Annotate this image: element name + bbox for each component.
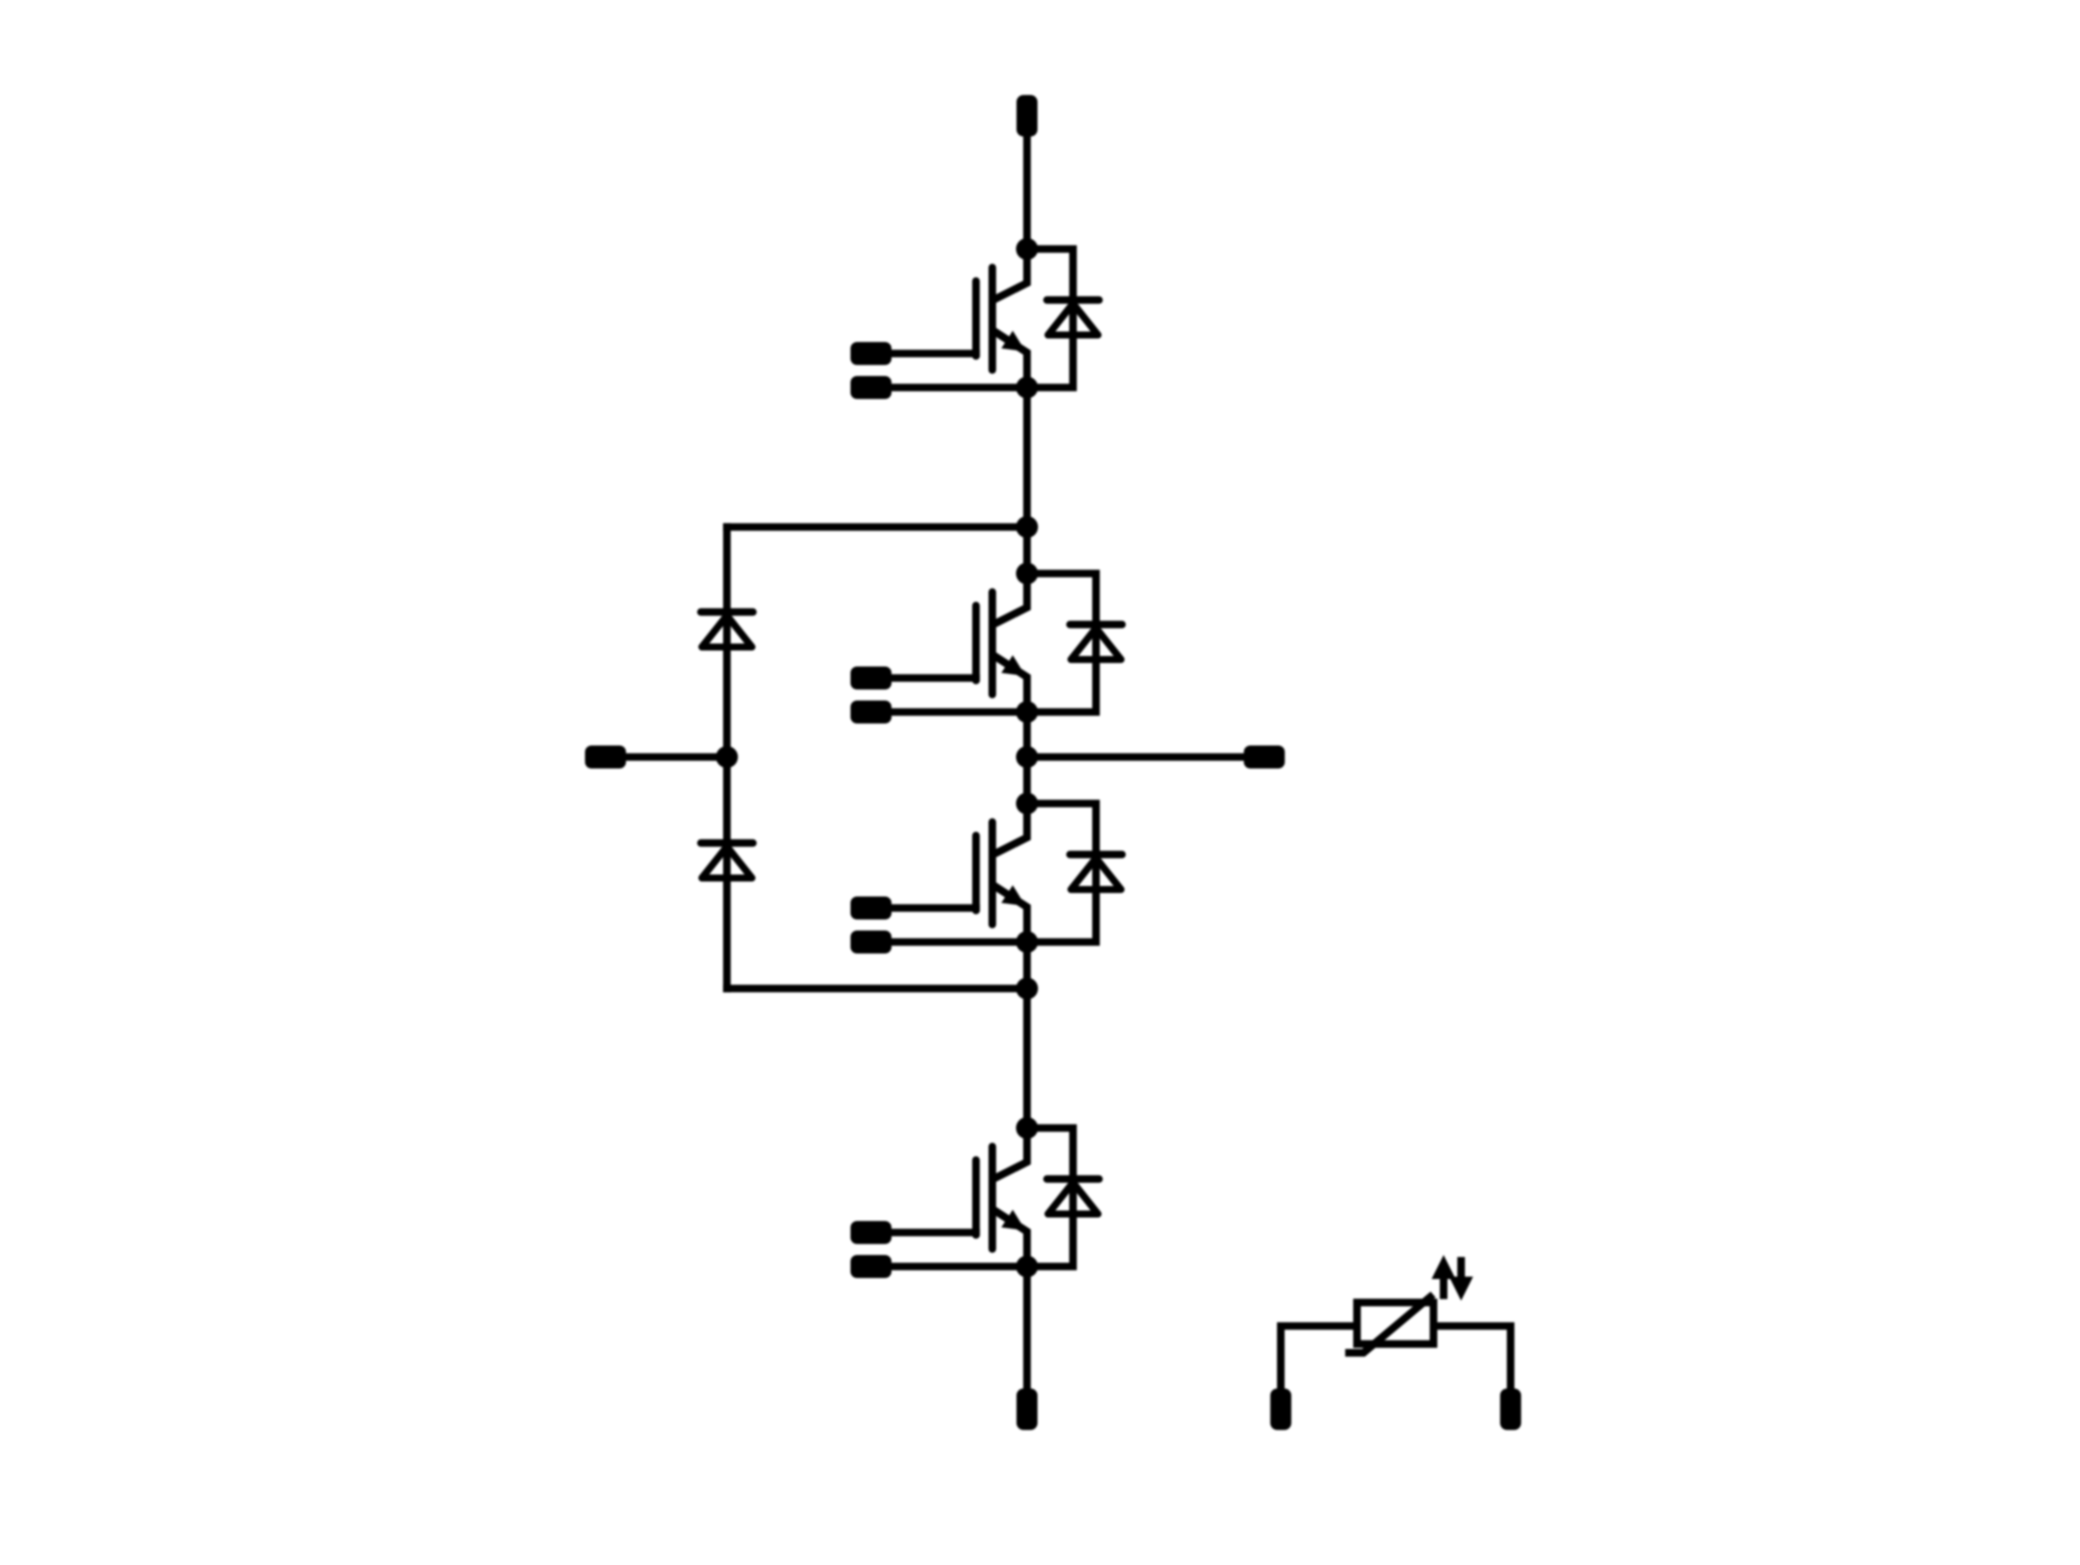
node clamp junction B xyxy=(1016,978,1038,1000)
wire Q1 gate lead xyxy=(886,350,980,358)
wire clamp junction A to Q2 collector xyxy=(1023,527,1031,574)
terminal Q2 auxiliary emitter pad xyxy=(851,701,892,724)
transistor Q3 (IGBT) xyxy=(976,804,1027,943)
wire Q1 emitter to clamp junction A xyxy=(1023,388,1031,528)
wire Q2 auxiliary emitter lead xyxy=(886,708,1028,716)
node Q2 collector junction xyxy=(1016,563,1038,585)
node AC output junction xyxy=(1016,746,1038,768)
wire clamp junction A to left branch (horizontal) xyxy=(723,523,1027,531)
wire D4 free-wheeling branch (Q4 collector to emitter) xyxy=(1027,1128,1073,1267)
wire AC output xyxy=(1027,753,1248,761)
wire Q2 emitter to AC output node xyxy=(1023,712,1031,757)
terminal Q3 gate pad xyxy=(851,897,892,920)
wire D3 free-wheeling branch (Q3 collector to emitter) xyxy=(1027,804,1096,943)
thermistor R1 (NTC temperature sensor) xyxy=(1345,1295,1433,1353)
node Q3 emitter junction xyxy=(1016,931,1038,953)
wire left branch to clamp junction B (horizontal) xyxy=(723,985,1027,993)
diode D5 (upper clamp diode) xyxy=(701,612,753,647)
diode D1 (anti-parallel free-wheeling diode of Q1) xyxy=(1047,300,1099,335)
terminal Q4 gate pad xyxy=(851,1221,892,1244)
wire left clamp branch vertical xyxy=(723,523,731,992)
wire neutral terminal to clamp branch xyxy=(620,753,727,761)
node clamp branch neutral junction xyxy=(716,746,738,768)
terminal Q3 auxiliary emitter pad xyxy=(851,931,892,954)
wire NTC right lead xyxy=(1434,1326,1511,1390)
terminal AC output pad xyxy=(1244,746,1285,769)
wire D1 free-wheeling branch (Q1 collector to emitter) xyxy=(1027,249,1073,388)
terminal NTC pin 1 xyxy=(1270,1389,1291,1431)
terminal Q1 auxiliary emitter pad xyxy=(851,376,892,399)
transistor Q2 (IGBT) xyxy=(976,574,1027,713)
node Q1 emitter junction xyxy=(1016,377,1038,399)
wire AC output node to Q3 collector xyxy=(1023,757,1031,804)
wire Q2 gate lead xyxy=(886,674,980,682)
node clamp junction A xyxy=(1016,516,1038,538)
diode D6 (lower clamp diode) xyxy=(701,843,753,878)
diode D3 (anti-parallel free-wheeling diode of Q3) xyxy=(1070,855,1122,890)
diode D4 (anti-parallel free-wheeling diode of Q4) xyxy=(1047,1179,1099,1214)
wire D2 free-wheeling branch (Q2 collector to emitter) xyxy=(1027,574,1096,713)
wire Q1 auxiliary emitter lead xyxy=(886,384,1028,392)
wire top terminal to Q1 collector xyxy=(1023,133,1031,249)
terminal NTC pin 2 xyxy=(1500,1389,1521,1431)
node Q3 collector junction xyxy=(1016,793,1038,815)
terminal 2 (emitter / DC- pin) xyxy=(1017,1389,1038,1431)
node Q2 emitter junction xyxy=(1016,701,1038,723)
wire Q4 emitter to bottom terminal xyxy=(1023,1267,1031,1393)
terminal Q1 gate pad xyxy=(851,342,892,365)
node Q1 collector junction xyxy=(1016,238,1038,260)
wire Q4 auxiliary emitter lead xyxy=(886,1263,1028,1271)
node Q4 emitter junction xyxy=(1016,1256,1038,1278)
terminal Q2 gate pad xyxy=(851,667,892,690)
NTC characteristic arrows xyxy=(1432,1255,1474,1301)
terminal Q4 auxiliary emitter pad xyxy=(851,1255,892,1278)
wire NTC left lead xyxy=(1281,1326,1357,1390)
node Q4 collector junction xyxy=(1016,1117,1038,1139)
transistor Q4 (IGBT) xyxy=(976,1128,1027,1267)
diode D2 (anti-parallel free-wheeling diode of Q2) xyxy=(1070,625,1122,660)
wire Q3 gate lead xyxy=(886,904,980,912)
wire Q4 gate lead xyxy=(886,1229,980,1237)
wire Q3 auxiliary emitter lead xyxy=(886,938,1028,946)
wire Q3 emitter to clamp junction B xyxy=(1023,942,1031,989)
wire clamp junction B to Q4 collector xyxy=(1023,989,1031,1129)
terminal N (neutral point pad) xyxy=(585,746,626,769)
terminal 1 (collector / DC+ pin) xyxy=(1017,95,1038,137)
transistor Q1 (IGBT) xyxy=(976,249,1027,388)
